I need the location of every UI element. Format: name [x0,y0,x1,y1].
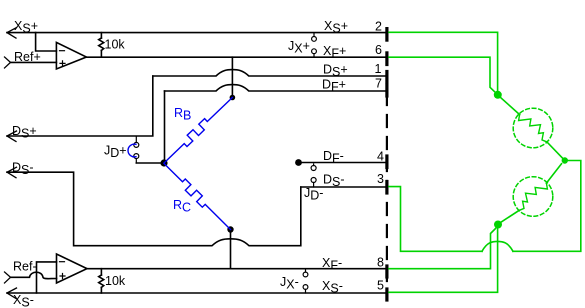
node Ref+ (input chevron) [5,57,11,68]
wire U1 output / XF+ force line (y=57.2) [86,56,386,58]
jumper JX- pads [305,270,307,273]
svg-text:7: 7 [375,77,382,91]
node Ref- (input chevron) [5,272,11,283]
terminal dot DF- [295,159,302,166]
wire Ref+ to U1 non-inverting input [11,61,57,63]
svg-text:RB: RB [174,106,191,123]
svg-text:6: 6 [375,43,382,57]
wire bottom node to XS- lead (green) [389,228,498,292]
strain gauge G1 (dashed circle) [513,108,553,148]
svg-text:DS+: DS+ [12,124,37,141]
strain gauge G2 (dashed circle) [513,177,553,217]
wire feedback from XS+ to op-amp U1 inverting input [36,33,57,51]
wire gauge1 top lead [501,98,520,115]
junction RB top node [230,95,236,101]
pin 3 tick [385,182,388,194]
wire DF+ riser down to excitation node [164,91,166,163]
svg-text:1: 1 [375,62,382,76]
junction sensor node A [494,91,502,99]
wire mid node to gauge2 [546,164,561,183]
op-amp U1 (top buffer) [56,42,86,69]
green hop over sensor leads [482,241,513,251]
node XS+ (off-page arrow, top left) [7,28,17,38]
pin 8 tick [385,266,388,277]
wire sensor XF+ lead (green) [389,57,497,94]
svg-text:XF-: XF- [322,256,342,273]
svg-text:XS-: XS- [13,293,34,308]
svg-text:DS-: DS- [12,161,34,178]
strain gauge G1 element [519,115,547,142]
wire sensor XS+ lead (green) [389,32,498,91]
junction RC bottom node [227,226,233,232]
wire gauge1 to mid node [547,142,565,161]
wire gauge2 to bottom node [501,210,520,222]
pin 2 tick [385,29,388,40]
strain gauge G2 element [519,183,547,210]
wire JD+ to excitation node [136,162,164,164]
svg-text:10k: 10k [105,38,126,52]
jumper JD+ wire (blue arc) [128,144,136,157]
jumper JD+ pads [135,137,137,143]
pin 1 tick [385,72,388,83]
svg-text:JD-: JD- [304,186,323,203]
svg-text:8: 8 [377,256,384,270]
junction sensor node C [494,221,502,229]
svg-text:RC: RC [173,198,191,215]
wire DF+ force line (y=91) with hop over x=232.4 [165,85,387,91]
junction sensor mid node B [562,157,568,163]
wire XS- sense line (y=293) [7,292,386,294]
svg-text:Ref-: Ref- [13,260,37,274]
pin 5 tick [385,289,388,300]
pin 6 tick [385,53,388,65]
junction excitation node [160,159,167,166]
wire Ref- to U2 non-inverting input with hop over feedback riser [11,272,57,278]
pin 7 tick [385,85,388,96]
svg-text:JX+: JX+ [288,39,310,56]
svg-text:JD+: JD+ [104,144,127,161]
connector dashed line [386,93,388,300]
svg-text:5: 5 [377,279,384,293]
wire DS+ sense line (y=76) with hop over x=232.4 [153,70,386,76]
wire mid node to DS- return: right, down, across with hop, up to pin 3 [389,161,581,252]
wire DS- line to pin 3 [301,186,386,188]
svg-text:2: 2 [375,20,382,34]
wire XS+ sense line (y=32) [7,32,386,34]
wire DS- from arrow, down and across (y=245.7) with hop over x=230.5 [7,172,301,246]
svg-text:3: 3 [377,172,384,186]
jumper JX+ pads [313,33,315,36]
svg-text:Ref+: Ref+ [14,50,41,64]
svg-text:4: 4 [377,150,384,164]
resistor 10k (top, between XS+ and XF+) [100,33,102,38]
resistor RC (blue) [164,164,231,230]
wire feedback from XS- to U2 inverting input [37,262,57,293]
wire from XF+ line down to bridge node (vertical x=232.4) [231,57,233,97]
node DS- (off-page arrow, left) [7,167,17,178]
svg-text:JX-: JX- [280,275,299,292]
wire bottom node to XF- lead (green) [389,229,496,269]
pin 4 tick [385,156,388,168]
node DS+ (off-page arrow, left) [7,131,17,142]
resistor 10k (bottom, between XF- and XS-) [100,269,102,275]
svg-text:10k: 10k [105,274,126,288]
wire U2 output / XF- force line (y=268.7) [87,268,386,270]
op-amp U2 (bottom buffer) [57,254,88,283]
node XS- (off-page arrow, bottom left) [7,288,17,299]
wire DS+ from arrow to riser [7,76,153,136]
jumper JD- pads [313,164,315,166]
resistor RB (blue) [164,98,232,164]
wire DF- line to pin 4 [299,162,387,164]
svg-text:XF+: XF+ [323,44,346,61]
wire RC node down to XF- line [230,230,232,269]
